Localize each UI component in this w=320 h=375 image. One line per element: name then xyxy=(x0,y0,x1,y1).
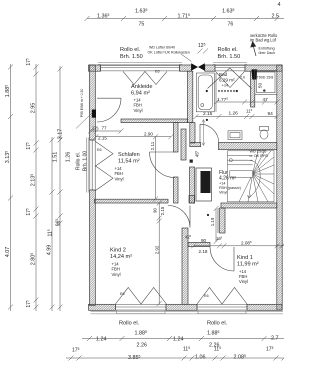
interior wall Bad south (left of door) xyxy=(190,143,201,147)
block near shaft xyxy=(190,160,193,163)
svg-text:Vinyl: Vinyl xyxy=(115,176,124,181)
top chain line xyxy=(87,17,284,19)
symbol Kind1 window W xyxy=(197,288,247,305)
washbasin xyxy=(228,131,242,140)
interior wall shower west xyxy=(251,71,255,107)
svg-text:E6: E6 xyxy=(155,70,160,74)
symbol Kind2 window W xyxy=(116,288,167,305)
exterior wall left, below Schlafen window xyxy=(90,190,96,306)
svg-text:4: 4 xyxy=(278,2,281,8)
svg-text:75: 75 xyxy=(139,21,145,27)
svg-text:+14: +14 xyxy=(222,83,230,88)
bottom chain2 ticks xyxy=(69,356,287,361)
interior dim Schlafen vertical xyxy=(153,134,158,201)
svg-text:3.17: 3.17 xyxy=(58,129,64,140)
exterior wall bottom, right of Kind1 window xyxy=(247,304,282,310)
svg-text:90: 90 xyxy=(201,238,207,243)
svg-text:Vinyl: Vinyl xyxy=(112,272,121,277)
electro panel on left wall xyxy=(92,110,96,118)
exterior wall top, right of Bad window xyxy=(245,65,282,71)
interior wall Schlafen/Flur upper xyxy=(174,123,179,152)
svg-text:T90D 15/8: T90D 15/8 xyxy=(257,76,274,80)
door Kind2 xyxy=(168,206,190,228)
svg-text:Entlüftung: Entlüftung xyxy=(259,47,275,51)
svg-text:2.15: 2.15 xyxy=(98,136,107,141)
leader line from electro panel xyxy=(76,113,93,129)
svg-text:u. OK RFB: u. OK RFB xyxy=(250,154,269,158)
svg-text:Rollo el.: Rollo el. xyxy=(218,47,239,53)
door Schlafen xyxy=(150,152,176,178)
svg-text:2.11: 2.11 xyxy=(150,141,155,150)
bottom chain1 line xyxy=(82,338,284,340)
dot in flur alcove xyxy=(207,214,209,216)
interior wall divider Kind2/Kind1 xyxy=(182,228,188,304)
interior wall stub at Kind2 door hinge xyxy=(189,196,195,204)
interior wall Ankleide/Schlafen xyxy=(121,119,188,123)
symbol Schlafen window xyxy=(96,142,114,191)
svg-text:WD 25/25: WD 25/25 xyxy=(250,149,267,153)
top chain ticks xyxy=(85,16,280,21)
interior dim Ankleide door line xyxy=(88,129,124,134)
vent bowtie in top wall xyxy=(92,63,257,117)
svg-text:Vinyl: Vinyl xyxy=(219,190,227,194)
svg-text:im Bad wg.Lüf: im Bad wg.Lüf xyxy=(250,38,277,43)
interior dim Kind1 door line xyxy=(191,243,284,248)
thin line west of Kind1 wall xyxy=(217,208,219,233)
svg-text:76: 76 xyxy=(228,21,234,27)
window Kind2 bottom xyxy=(116,305,167,310)
svg-text:Brh. 1.50: Brh. 1.50 xyxy=(218,54,241,60)
bathtub xyxy=(196,73,214,112)
window Kind1 bottom xyxy=(197,305,247,310)
svg-text:P95 EW6 m + 0.30: P95 EW6 m + 0.30 xyxy=(80,89,84,118)
svg-text:Rollo el.: Rollo el. xyxy=(120,47,141,53)
interior dim Bad upper line xyxy=(214,100,280,105)
window Bad top xyxy=(215,65,245,71)
left chain A line xyxy=(10,64,12,311)
sill boxes below bottom windows xyxy=(117,310,166,313)
exterior wall top, between vent and Bad window xyxy=(205,65,215,71)
bottom chain1 ticks xyxy=(87,336,267,341)
svg-text:94: 94 xyxy=(268,111,274,117)
WC xyxy=(260,126,269,130)
left chain B line xyxy=(35,64,37,311)
svg-text:77: 77 xyxy=(102,126,108,131)
left chain D ticks xyxy=(58,67,63,310)
interior wall Flur west stub xyxy=(181,129,186,160)
svg-text:FBH (passiv): FBH (passiv) xyxy=(219,186,242,190)
svg-text:1.26: 1.26 xyxy=(66,152,72,163)
svg-text:WD Lüfter 60/40: WD Lüfter 60/40 xyxy=(149,46,175,50)
svg-text:1.24: 1.24 xyxy=(173,336,184,342)
window Ankleide top xyxy=(101,65,180,71)
leader arrow to vent bowtie xyxy=(181,54,192,62)
svg-text:Brh. 1.00: Brh. 1.00 xyxy=(83,151,89,172)
winder treads fan xyxy=(239,151,274,202)
exterior wall left, above Schlafen window xyxy=(90,65,96,140)
svg-text:2.5: 2.5 xyxy=(272,14,280,20)
dot near bad door xyxy=(206,119,208,121)
interior wall Schlafen/Kind2 xyxy=(95,199,169,203)
svg-text:4.99: 4.99 xyxy=(47,245,53,256)
interior wall Bad west lower xyxy=(190,123,195,143)
svg-text:14,24 m²: 14,24 m² xyxy=(110,254,132,260)
svg-text:2.15: 2.15 xyxy=(203,111,213,117)
window glazing + sills xyxy=(86,63,283,314)
svg-text:2.95: 2.95 xyxy=(31,103,37,114)
svg-text:Vinyl: Vinyl xyxy=(134,108,143,113)
tick pair wall 12.5 above bad wall xyxy=(198,49,209,54)
svg-text:Schlafen: Schlafen xyxy=(118,152,140,158)
svg-text:2.18: 2.18 xyxy=(199,249,208,254)
left chain C ticks xyxy=(50,138,55,310)
svg-text:Ankleide: Ankleide xyxy=(131,84,152,90)
arrow dim at bad door xyxy=(202,120,205,146)
exterior wall top, left segment xyxy=(89,65,101,71)
interior wall Ankleide/Bad vertical xyxy=(188,71,193,122)
BATH FIXTURES xyxy=(190,70,277,216)
svg-text:4,26 m²: 4,26 m² xyxy=(219,175,236,181)
left chain D line xyxy=(59,66,61,311)
interior wall below stair (Kind1 west upper) xyxy=(220,208,226,233)
DOORS xyxy=(97,98,234,271)
window Schlafen left xyxy=(90,140,95,190)
svg-text:2.90: 2.90 xyxy=(144,132,153,137)
door Kind1 xyxy=(210,247,234,271)
svg-text:1.26: 1.26 xyxy=(229,110,239,116)
svg-text:11,99 m²: 11,99 m² xyxy=(237,261,259,267)
svg-text:4.07: 4.07 xyxy=(5,247,11,258)
svg-text:1.51: 1.51 xyxy=(53,152,59,163)
exterior wall right xyxy=(277,65,282,310)
interior wall Kind1 north (left of door) xyxy=(188,242,210,246)
svg-text:E6: E6 xyxy=(120,292,125,296)
door Bad xyxy=(200,124,219,143)
svg-text:11,54 m²: 11,54 m² xyxy=(118,158,140,164)
svg-text:2.26: 2.26 xyxy=(137,343,148,349)
straight treads xyxy=(228,156,253,165)
svg-text:+14: +14 xyxy=(219,182,225,186)
left chain C line xyxy=(51,137,53,311)
left chain B ticks xyxy=(34,65,39,310)
svg-text:50: 50 xyxy=(258,83,263,89)
svg-text:Rollo el.: Rollo el. xyxy=(76,152,82,170)
interior wall Bad south / stair north xyxy=(219,143,277,150)
svg-text:Vinyl: Vinyl xyxy=(239,279,248,284)
shower xyxy=(255,70,277,94)
svg-text:Kind 1: Kind 1 xyxy=(237,255,253,261)
exterior wall bottom, left of Kind2 window xyxy=(89,304,116,310)
svg-text:1.24: 1.24 xyxy=(96,336,107,342)
WALLS xyxy=(89,65,283,310)
svg-text:2.92: 2.92 xyxy=(155,245,160,254)
window opening symbols xyxy=(96,68,252,304)
interior dim Bad lower line xyxy=(194,114,280,119)
svg-text:über Dach: über Dach xyxy=(259,51,276,55)
svg-text:6,94 m²: 6,94 m² xyxy=(131,90,150,96)
shaft outline xyxy=(196,168,212,201)
eaves lines below bottom wall xyxy=(91,312,284,314)
svg-text:1.19: 1.19 xyxy=(210,217,215,226)
shaft solid xyxy=(201,171,211,193)
walk line xyxy=(229,159,232,162)
radiator circles row in bad xyxy=(218,90,220,92)
exterior wall top, between Ankleide window and vent xyxy=(180,65,192,71)
dots in bad xyxy=(206,90,208,92)
svg-text:OK Lüfter=UK Rollokasten: OK Lüfter=UK Rollokasten xyxy=(148,50,190,54)
entlueftung arrow top right xyxy=(251,42,256,57)
svg-text:1.06: 1.06 xyxy=(195,355,206,361)
svg-text:Kind 2: Kind 2 xyxy=(110,248,126,254)
interior dim Schlafen horizontal xyxy=(94,134,174,139)
symbol Ankleide window W xyxy=(123,71,167,84)
symbol Bad window xyxy=(216,71,245,87)
interior wall shaft column xyxy=(190,167,195,203)
left chain A ticks xyxy=(8,65,13,310)
svg-text:2.7: 2.7 xyxy=(271,335,279,341)
svg-text:2.15: 2.15 xyxy=(160,206,165,215)
bottom chain2 line xyxy=(66,357,284,359)
svg-text:90: 90 xyxy=(153,208,158,213)
svg-text:E6: E6 xyxy=(204,294,209,298)
svg-text:Rollo el.: Rollo el. xyxy=(207,321,228,327)
interior dim Kind2/Kind1 vertical at divider xyxy=(157,201,162,307)
center rect xyxy=(230,171,253,178)
exterior wall bottom, between windows xyxy=(166,304,197,310)
door Ankleide xyxy=(97,98,121,122)
svg-text:47: 47 xyxy=(263,97,269,103)
svg-text:Brh. 1.50: Brh. 1.50 xyxy=(120,54,143,60)
svg-text:Rollo el.: Rollo el. xyxy=(119,321,140,327)
svg-text:2.0: 2.0 xyxy=(240,75,245,79)
svg-text:E6: E6 xyxy=(97,148,102,152)
interior dim Flur alcove vertical xyxy=(214,206,219,244)
interior wall stair south xyxy=(221,203,277,208)
STAIR xyxy=(228,151,275,202)
interior wall Schlafen/Flur lower xyxy=(174,177,179,203)
vent pipe black near shower xyxy=(252,69,258,79)
